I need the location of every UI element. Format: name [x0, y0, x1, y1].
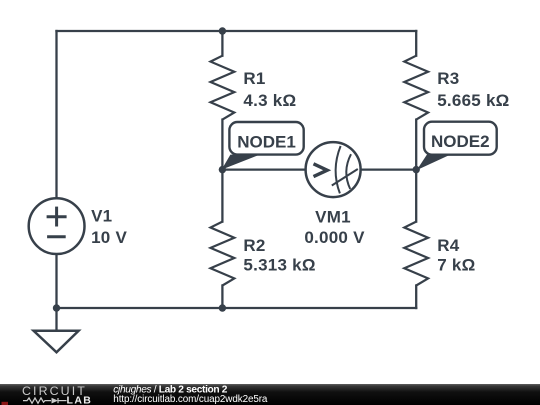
svg-text:NODE2: NODE2 — [431, 132, 490, 151]
svg-text:7 kΩ: 7 kΩ — [437, 255, 475, 274]
svg-text:R1: R1 — [243, 69, 265, 88]
svg-text:R4: R4 — [437, 236, 460, 255]
svg-text:V1: V1 — [91, 207, 112, 226]
svg-text:http://circuitlab.com/cuap2wdk: http://circuitlab.com/cuap2wdk2e5ra — [113, 394, 268, 405]
svg-text:5.313 kΩ: 5.313 kΩ — [243, 255, 315, 274]
svg-text:VM1: VM1 — [315, 207, 351, 226]
svg-text:R2: R2 — [243, 236, 265, 255]
svg-text:4.3 kΩ: 4.3 kΩ — [243, 91, 296, 110]
svg-text:0.000 V: 0.000 V — [304, 228, 365, 247]
svg-text:NODE1: NODE1 — [237, 132, 296, 151]
svg-text:R3: R3 — [437, 69, 459, 88]
svg-text:10 V: 10 V — [91, 228, 127, 247]
svg-text:LAB: LAB — [67, 394, 93, 405]
svg-text:5.665 kΩ: 5.665 kΩ — [437, 91, 509, 110]
